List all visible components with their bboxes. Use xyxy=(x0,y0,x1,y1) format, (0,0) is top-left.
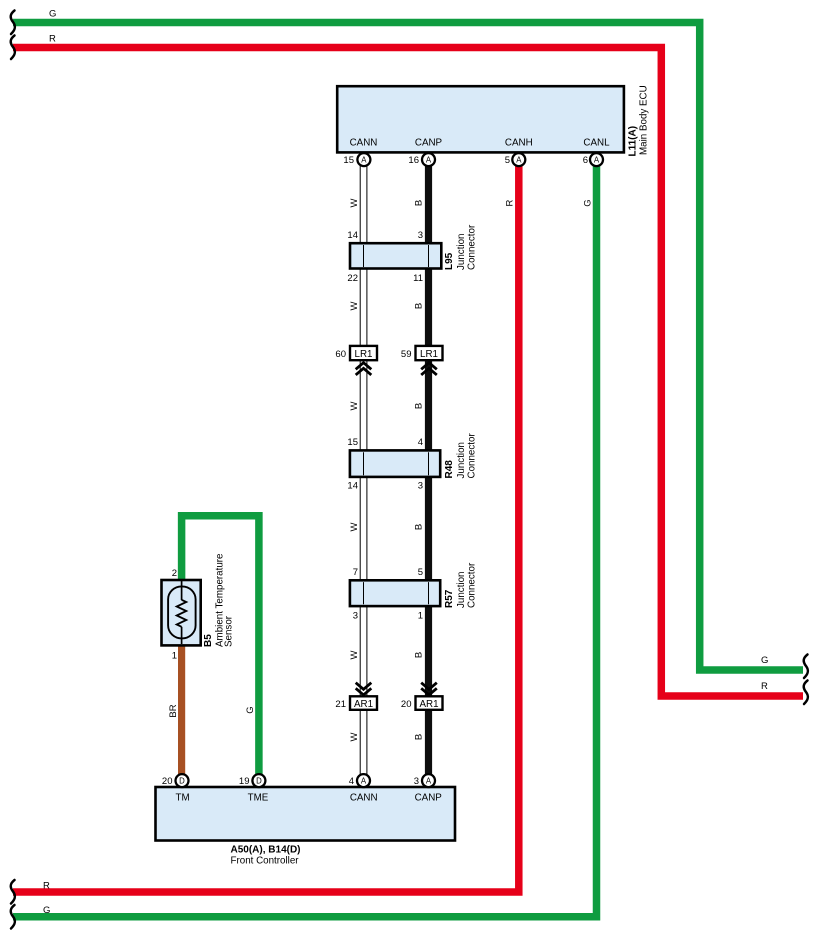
break symbol right G xyxy=(804,655,808,679)
svg-text:R: R xyxy=(505,199,516,206)
svg-text:W: W xyxy=(349,301,360,310)
svg-text:W: W xyxy=(349,522,360,531)
pin numbers around R57 xyxy=(353,567,423,622)
svg-text:B: B xyxy=(414,734,425,740)
svg-text:A: A xyxy=(361,156,367,165)
svg-text:Junction: Junction xyxy=(456,442,467,479)
svg-text:4: 4 xyxy=(418,437,423,448)
svg-text:59: 59 xyxy=(401,349,412,360)
break symbol bottom-left G xyxy=(11,905,15,929)
svg-text:D: D xyxy=(179,777,185,786)
svg-text:CANP: CANP xyxy=(415,138,443,149)
svg-text:L11(A): L11(A) xyxy=(628,126,639,157)
svg-text:3: 3 xyxy=(414,776,419,787)
break symbol top-left G xyxy=(11,11,15,35)
wire W CANN: double line ECU pin 15 to Front Controller pin 4 xyxy=(360,165,367,775)
svg-text:R: R xyxy=(49,34,56,45)
svg-text:Sensor: Sensor xyxy=(224,615,235,647)
svg-text:W: W xyxy=(349,401,360,410)
svg-text:3: 3 xyxy=(418,230,423,241)
svg-text:16: 16 xyxy=(408,155,419,166)
pin numbers around L95 xyxy=(347,230,423,284)
pin numbers around R48 xyxy=(347,437,423,492)
svg-text:TME: TME xyxy=(248,793,269,804)
connector 59 LR1 on B wire xyxy=(401,346,443,375)
connector 20 AR1 on B wire xyxy=(401,683,443,710)
svg-text:R: R xyxy=(761,681,768,692)
connector 21 AR1 on W wire xyxy=(335,683,377,710)
svg-text:G: G xyxy=(582,199,593,206)
svg-text:BR: BR xyxy=(168,704,179,717)
svg-text:5: 5 xyxy=(505,155,510,166)
svg-text:21: 21 xyxy=(335,699,346,710)
svg-text:6: 6 xyxy=(583,155,588,166)
svg-text:7: 7 xyxy=(353,567,358,578)
svg-text:G: G xyxy=(761,655,768,666)
svg-text:22: 22 xyxy=(347,273,358,284)
label R48 Junction Connector xyxy=(444,433,478,479)
svg-text:G: G xyxy=(49,9,56,20)
label R57 Junction Connector xyxy=(444,562,478,608)
pin 6 circle A on ECU CANL xyxy=(583,153,603,166)
wire R top: CANH branch from left break to right break xyxy=(13,48,803,697)
svg-text:19: 19 xyxy=(239,776,250,787)
svg-text:R48: R48 xyxy=(444,460,455,479)
svg-text:W: W xyxy=(349,732,360,741)
svg-text:A: A xyxy=(594,156,600,165)
svg-text:B: B xyxy=(414,524,425,530)
svg-text:15: 15 xyxy=(343,155,354,166)
svg-text:2: 2 xyxy=(172,568,177,579)
svg-text:Connector: Connector xyxy=(467,562,478,608)
svg-text:15: 15 xyxy=(347,437,358,448)
svg-text:R: R xyxy=(43,881,50,892)
svg-text:Connector: Connector xyxy=(467,433,478,479)
pin 3 circle A on Front Controller CANP xyxy=(414,774,435,787)
svg-text:B: B xyxy=(414,303,425,309)
svg-text:20: 20 xyxy=(162,776,173,787)
label B5 Ambient Temperature Sensor xyxy=(203,553,235,647)
svg-text:CANH: CANH xyxy=(505,138,533,149)
svg-text:A: A xyxy=(516,156,522,165)
svg-text:B: B xyxy=(414,403,425,409)
svg-text:A: A xyxy=(426,777,432,786)
break symbol bottom-left R xyxy=(11,880,15,904)
svg-text:G: G xyxy=(43,905,50,916)
svg-text:Connector: Connector xyxy=(467,224,478,270)
svg-text:Front Controller: Front Controller xyxy=(231,856,300,867)
label A50(A), B14(D) Front Controller xyxy=(231,845,301,867)
svg-text:CANN: CANN xyxy=(350,138,378,149)
svg-text:3: 3 xyxy=(353,610,358,621)
pin 16 circle A on ECU CANP xyxy=(408,153,435,166)
pin 15 circle A on ECU CANN xyxy=(343,153,370,166)
svg-text:11: 11 xyxy=(413,273,423,284)
svg-text:R57: R57 xyxy=(444,589,455,608)
ECU U1 box L11(A) Main Body ECU xyxy=(337,86,624,152)
svg-text:CANN: CANN xyxy=(350,793,378,804)
wire BR: sensor B5 pin 1 to Front Controller pin 20 xyxy=(178,644,185,775)
svg-text:L95: L95 xyxy=(444,252,455,270)
svg-text:Junction: Junction xyxy=(456,572,467,609)
svg-text:B: B xyxy=(414,652,425,658)
svg-text:A: A xyxy=(361,777,367,786)
svg-text:AR1: AR1 xyxy=(354,699,373,710)
pin 20 circle D on Front Controller TM xyxy=(162,774,189,787)
junction connector L95 box xyxy=(350,243,441,268)
wire G CANL: ECU pin 6 down to bottom-left break xyxy=(13,164,597,917)
pin 5 circle A on ECU CANH xyxy=(505,153,526,166)
svg-text:1: 1 xyxy=(418,610,423,621)
wire G TME: sensor B5 pin 2 loop to Front Controller pin 19 xyxy=(182,516,259,775)
svg-text:D: D xyxy=(256,777,262,786)
connector 60 LR1 on W wire xyxy=(335,346,377,375)
svg-text:AR1: AR1 xyxy=(419,699,438,710)
svg-text:20: 20 xyxy=(401,699,412,710)
svg-text:W: W xyxy=(349,650,360,659)
svg-text:LR1: LR1 xyxy=(420,349,438,360)
svg-text:W: W xyxy=(349,198,360,207)
break symbol top-left R xyxy=(11,36,15,60)
svg-text:5: 5 xyxy=(418,567,423,578)
svg-text:A50(A), B14(D): A50(A), B14(D) xyxy=(231,845,301,856)
label L95 Junction Connector xyxy=(444,224,478,270)
svg-text:60: 60 xyxy=(335,349,346,360)
break symbol right R xyxy=(804,681,808,705)
svg-text:A: A xyxy=(426,156,432,165)
svg-text:3: 3 xyxy=(418,481,423,492)
svg-text:14: 14 xyxy=(347,230,358,241)
pin 4 circle A on Front Controller CANN xyxy=(349,774,370,787)
svg-text:14: 14 xyxy=(347,481,358,492)
svg-text:1: 1 xyxy=(172,651,177,662)
svg-text:CANP: CANP xyxy=(415,793,443,804)
svg-text:B: B xyxy=(414,200,425,206)
svg-text:TM: TM xyxy=(176,793,190,804)
svg-text:Junction: Junction xyxy=(456,234,467,271)
pin 19 circle D on Front Controller TME xyxy=(239,774,265,787)
svg-text:G: G xyxy=(245,706,256,713)
svg-text:Main Body ECU: Main Body ECU xyxy=(639,85,650,155)
wire B CANP: ECU pin 16 to Front Controller pin 3 xyxy=(425,164,432,775)
svg-text:LR1: LR1 xyxy=(355,349,373,360)
junction connector R57 box xyxy=(350,580,440,606)
wire G top: CANL branch from left break to right break xyxy=(13,23,803,671)
wire R CANH: ECU pin 5 down to bottom-left break xyxy=(13,164,519,892)
junction connector R48 box xyxy=(350,450,440,477)
sensor B5 Ambient Temperature Sensor box xyxy=(162,580,201,645)
svg-text:B5: B5 xyxy=(203,634,214,647)
Front Controller box A50(A), B14(D) xyxy=(156,787,456,841)
svg-text:CANL: CANL xyxy=(583,138,610,149)
svg-text:4: 4 xyxy=(349,776,354,787)
